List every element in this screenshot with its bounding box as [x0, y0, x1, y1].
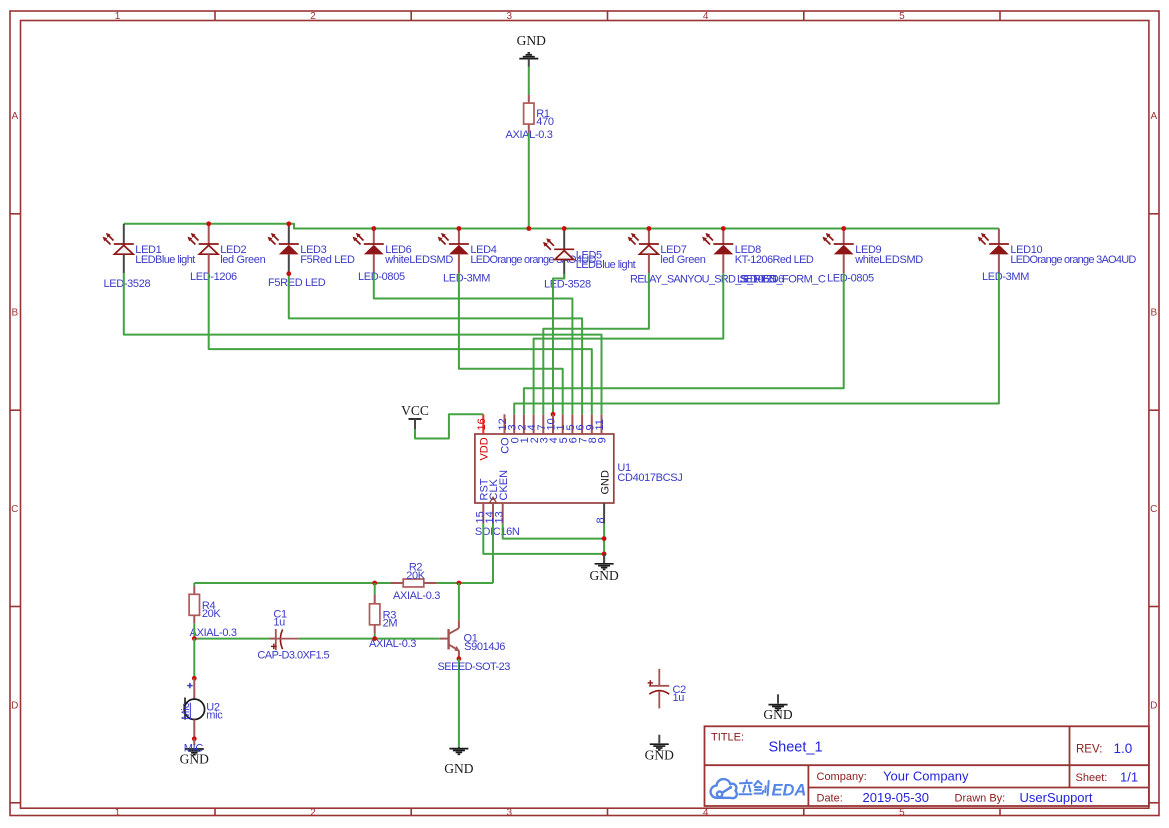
svg-text:whiteLEDSMD: whiteLEDSMD	[854, 254, 923, 266]
svg-text:3: 3	[507, 807, 513, 818]
svg-text:LED-0805: LED-0805	[827, 273, 874, 285]
svg-text:REV:: REV:	[1076, 743, 1102, 755]
svg-text:LED-3528: LED-3528	[544, 279, 591, 291]
svg-text:LED-3MM: LED-3MM	[982, 271, 1029, 283]
svg-text:LED-1206: LED-1206	[190, 271, 237, 283]
svg-text:1u: 1u	[273, 617, 285, 629]
svg-text:SERIES_FORM_C: SERIES_FORM_C	[740, 274, 826, 286]
svg-text:GND: GND	[763, 707, 792, 722]
svg-text:VDD: VDD	[479, 437, 491, 460]
svg-text:whiteLEDSMD: whiteLEDSMD	[384, 254, 453, 266]
svg-text:LEDOrange orange 3AO4UD: LEDOrange orange 3AO4UD	[1010, 254, 1136, 266]
svg-text:1.0: 1.0	[1114, 741, 1133, 756]
svg-text:GND: GND	[589, 568, 618, 583]
svg-text:TITLE:: TITLE:	[711, 732, 744, 744]
svg-text:SOIC16N: SOIC16N	[475, 526, 520, 538]
svg-text:CAP-D3.0XF1.5: CAP-D3.0XF1.5	[257, 650, 329, 662]
svg-text:1: 1	[115, 807, 121, 818]
svg-text:GND: GND	[180, 751, 209, 766]
svg-text:Company:: Company:	[817, 771, 867, 783]
svg-text:Sheet_1: Sheet_1	[769, 740, 823, 756]
svg-text:LEDBlue light: LEDBlue light	[135, 254, 195, 266]
svg-text:LED-3MM: LED-3MM	[443, 273, 490, 285]
svg-text:F5RED LED: F5RED LED	[268, 277, 326, 289]
svg-text:4: 4	[703, 11, 709, 22]
svg-text:Sheet:: Sheet:	[1076, 772, 1108, 784]
svg-text:13: 13	[494, 511, 506, 523]
svg-text:GND: GND	[517, 33, 546, 48]
svg-text:GND: GND	[599, 470, 611, 495]
svg-text:AXIAL-0.3: AXIAL-0.3	[190, 627, 237, 639]
svg-text:UserSupport: UserSupport	[1020, 790, 1093, 805]
svg-text:B: B	[11, 308, 18, 319]
svg-text:F5Red LED: F5Red LED	[300, 254, 355, 266]
svg-text:Drawn By:: Drawn By:	[955, 792, 1006, 804]
svg-text:C: C	[11, 504, 18, 515]
svg-text:11: 11	[594, 419, 606, 430]
svg-text:2: 2	[310, 11, 316, 22]
svg-text:LED-0805: LED-0805	[358, 271, 405, 283]
svg-text:led Green: led Green	[660, 254, 705, 266]
svg-text:3: 3	[507, 11, 513, 22]
svg-text:A: A	[1150, 111, 1157, 122]
svg-text:mic: mic	[206, 710, 223, 722]
svg-text:S9014J6: S9014J6	[464, 641, 505, 653]
svg-text:20K: 20K	[406, 570, 426, 582]
svg-text:CD4017BCSJ: CD4017BCSJ	[617, 472, 682, 484]
svg-text:VCC: VCC	[401, 403, 429, 418]
svg-text:D: D	[11, 701, 18, 712]
svg-text:B: B	[1150, 308, 1157, 319]
svg-text:GND: GND	[444, 761, 473, 776]
svg-text:2: 2	[310, 807, 316, 818]
svg-text:CKEN: CKEN	[498, 470, 510, 501]
svg-text:C: C	[1150, 504, 1157, 515]
svg-text:1/1: 1/1	[1120, 770, 1138, 785]
svg-text:D: D	[1150, 701, 1157, 712]
svg-text:Date:: Date:	[817, 792, 843, 804]
svg-text:Mic: Mic	[180, 702, 192, 720]
svg-text:SEEED-SOT-23: SEEED-SOT-23	[438, 661, 511, 673]
svg-text:4: 4	[703, 807, 709, 818]
svg-text:16: 16	[476, 418, 488, 430]
svg-text:EDA: EDA	[772, 781, 807, 799]
svg-text:2M: 2M	[383, 618, 398, 630]
svg-text:20K: 20K	[202, 608, 222, 620]
svg-text:KT-1206Red LED: KT-1206Red LED	[735, 254, 814, 266]
svg-text:2019-05-30: 2019-05-30	[863, 790, 930, 805]
svg-text:Your Company: Your Company	[883, 769, 969, 784]
svg-text:AXIAL-0.3: AXIAL-0.3	[393, 590, 440, 602]
svg-text:8: 8	[595, 517, 607, 523]
svg-text:5: 5	[899, 807, 905, 818]
svg-text:1: 1	[115, 11, 121, 22]
svg-text:led Green: led Green	[220, 254, 265, 266]
svg-text:9: 9	[597, 437, 609, 443]
svg-text:5: 5	[899, 11, 905, 22]
svg-text:GND: GND	[645, 748, 674, 763]
svg-text:LEDBlue light: LEDBlue light	[576, 259, 636, 271]
svg-text:1u: 1u	[673, 692, 685, 704]
svg-text:LED-3528: LED-3528	[104, 278, 151, 290]
svg-text:470: 470	[536, 116, 554, 128]
svg-text:A: A	[11, 111, 18, 122]
